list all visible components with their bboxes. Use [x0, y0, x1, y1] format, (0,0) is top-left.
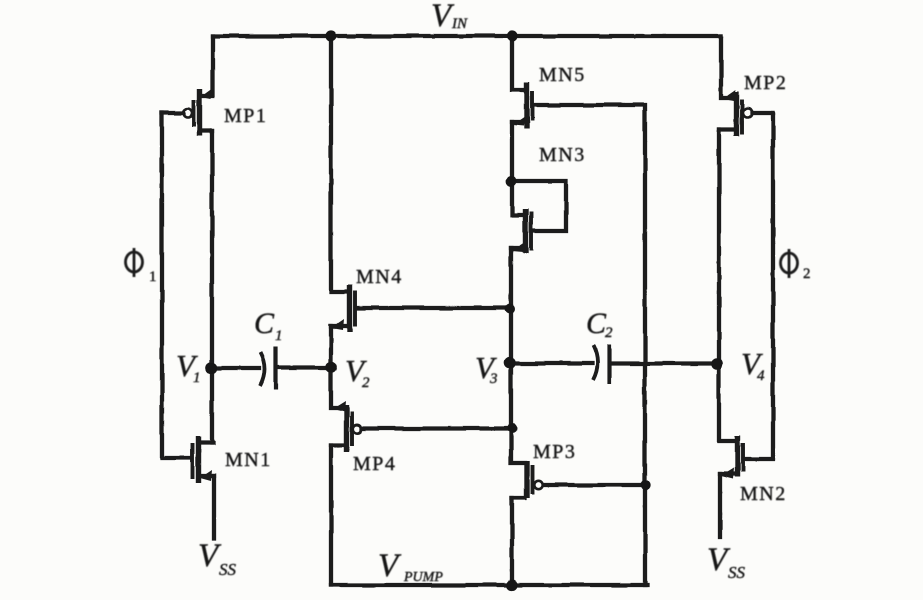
svg-text:3: 3 [489, 371, 498, 387]
svg-text:4: 4 [757, 368, 765, 384]
svg-text:MN1: MN1 [225, 449, 272, 471]
svg-text:MP2: MP2 [744, 72, 787, 94]
svg-text:V: V [378, 548, 402, 584]
svg-text:IN: IN [451, 16, 468, 32]
svg-text:SS: SS [728, 563, 746, 582]
svg-text:MP1: MP1 [224, 105, 267, 127]
svg-text:MN5: MN5 [539, 64, 586, 86]
svg-text:C: C [254, 307, 275, 340]
svg-text:SS: SS [219, 560, 237, 579]
svg-text:1: 1 [275, 328, 283, 344]
svg-text:2: 2 [605, 325, 613, 341]
svg-text:MN2: MN2 [740, 483, 787, 505]
svg-text:2: 2 [362, 375, 370, 391]
svg-text:2: 2 [803, 266, 811, 282]
svg-text:PUMP: PUMP [403, 570, 443, 585]
svg-text:MN3: MN3 [539, 144, 586, 166]
svg-text:MP3: MP3 [533, 441, 576, 463]
svg-text:C: C [586, 307, 607, 340]
svg-text:MN4: MN4 [356, 266, 403, 288]
svg-text:MP4: MP4 [353, 453, 396, 475]
svg-text:1: 1 [193, 370, 201, 386]
svg-text:1: 1 [149, 269, 157, 285]
